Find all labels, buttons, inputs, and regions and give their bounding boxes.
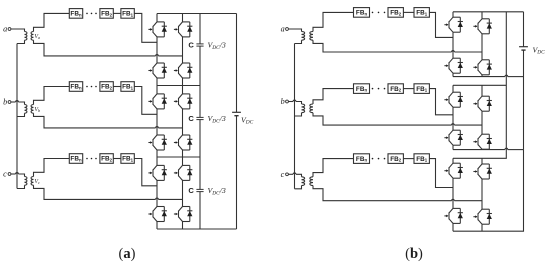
wire: primary-side neutral bus (circuit b) (294, 44, 296, 189)
svg-text:b: b (3, 98, 7, 107)
node a (phase a input terminal, circuit b) (281, 25, 289, 34)
full-bridge module FB2 (phase b, circuit b) (388, 84, 403, 94)
wire: secondary bottom to cell AC return (34, 40, 183, 56)
full-bridge module FB1 (phase b, circuit a) (121, 82, 134, 92)
IGBT Q2 with diode (174, 22, 193, 37)
wire: FB2 to FB1 (113, 158, 121, 160)
svg-text:C: C (188, 114, 194, 123)
transformer Ta (circuit a) (25, 32, 34, 41)
wire: secondary bottom to cell AC return (34, 185, 183, 199)
wire: bridge c bottom bus to negative rail (453, 150, 524, 232)
wire: mid DC bus (cells 1-2) (157, 85, 200, 87)
full-bridge module FB1 (phase a, circuit a) (121, 9, 134, 19)
wire: FB1 output to cell AC input (134, 13, 157, 42)
transformer Ta (circuit b) (302, 32, 314, 41)
wire: FB1 output to bridge AC input (429, 12, 453, 37)
full-bridge module FBn (phase c, circuit b) (354, 154, 370, 164)
full-bridge module FB1 (phase b, circuit b) (414, 84, 429, 94)
svg-text:a: a (3, 25, 7, 34)
node b (phase b input terminal, circuit b) (281, 97, 289, 106)
wire: leg verticals (453, 12, 482, 77)
svg-text:Vb: Vb (34, 107, 40, 113)
IGBT Q8 with diode (174, 135, 193, 150)
svg-text:(b): (b) (405, 246, 423, 262)
transformer Tb (circuit b) (302, 104, 314, 113)
full-bridge module FB1 (phase a, circuit b) (414, 8, 429, 18)
wire: top DC bus (cell 1) (157, 13, 237, 15)
IGBT Q10 with diode (174, 165, 193, 180)
node c (phase c input terminal, circuit b) (281, 170, 289, 179)
svg-text:FB2: FB2 (101, 84, 113, 91)
IGBT Q16 with diode (473, 60, 492, 75)
ellipsis dots (86, 158, 97, 160)
svg-text:c: c (3, 170, 7, 179)
svg-text:FBn: FBn (70, 11, 82, 18)
IGBT Q15 with diode (444, 58, 463, 73)
full-bridge module FBn (phase b, circuit b) (354, 84, 370, 94)
full-bridge module FB2 (phase b, circuit a) (100, 82, 113, 92)
IGBT Q7 with diode (148, 135, 167, 150)
wire: terminal to primary (288, 173, 301, 177)
svg-text:Vc: Vc (34, 179, 40, 185)
wire: bridge b bottom bus to negative rail (453, 148, 524, 149)
wire: secondary top to FB chain (313, 89, 354, 104)
ellipsis dots (372, 158, 386, 160)
wire: secondary bottom to bridge AC return (313, 186, 482, 201)
wire: primary return to neutral (295, 40, 302, 43)
IGBT Q3 with diode (148, 63, 167, 78)
wire: battery leads (523, 12, 525, 150)
transformer Tc (circuit b) (302, 177, 314, 186)
wire: FB2 to FB1 (403, 88, 414, 90)
IGBT Q19 with diode (444, 130, 463, 145)
capacitor C1 (196, 44, 203, 46)
svg-text:FB2: FB2 (101, 11, 113, 18)
wire: primary-side neutral bus (16, 44, 18, 189)
svg-text:FB2: FB2 (390, 86, 402, 93)
svg-text:FBn: FBn (356, 156, 368, 163)
IGBT Q14 with diode (473, 19, 492, 34)
wire: primary return to neutral (295, 186, 302, 189)
wire: secondary bottom to cell AC return (34, 113, 183, 128)
wire: leg verticals (157, 86, 183, 158)
IGBT Q22 with diode (473, 164, 492, 179)
IGBT Q1 with diode (148, 22, 167, 37)
wire: FB1 output to cell AC input (134, 159, 157, 186)
svg-text:Va: Va (34, 34, 40, 40)
ellipsis dots (372, 88, 386, 90)
full-bridge module FB2 (phase a, circuit b) (388, 8, 403, 18)
DC source VDC (circuit b) (519, 47, 528, 50)
wire: secondary top to FB chain (34, 13, 70, 31)
IGBT Q24 with diode (473, 209, 492, 224)
full-bridge module FB2 (phase c, circuit a) (100, 154, 113, 164)
svg-text:(a): (a) (119, 246, 136, 262)
IGBT Q13 with diode (444, 17, 463, 32)
wire: FB1 output to bridge AC input (429, 89, 453, 115)
IGBT Q4 with diode (174, 63, 193, 78)
wire: bottom DC bus (cell 3) (157, 228, 237, 230)
ellipsis dots (86, 13, 97, 15)
wire: secondary bottom to bridge AC return (313, 113, 482, 125)
full-bridge module FB2 (phase c, circuit b) (388, 154, 403, 164)
wire: primary return to neutral (17, 185, 25, 188)
wire: positive distribution rail (453, 12, 506, 159)
svg-text:FBn: FBn (356, 10, 368, 17)
ellipsis dots (372, 12, 386, 14)
svg-text:FB1: FB1 (122, 156, 134, 163)
wire: leg verticals (157, 157, 183, 229)
wire: mid DC bus (cells 2-3) (157, 156, 200, 158)
svg-text:FBn: FBn (70, 156, 82, 163)
capacitor C3 (196, 189, 203, 191)
wire: FB2 to FB1 (403, 158, 414, 160)
wire: FB2 to FB1 (113, 86, 121, 88)
IGBT Q21 with diode (444, 163, 463, 178)
transformer Tb (circuit a) (25, 105, 34, 114)
full-bridge module FB1 (phase c, circuit b) (414, 154, 429, 164)
IGBT Q18 with diode (473, 96, 492, 111)
wire: bridge b top bus (453, 84, 506, 86)
svg-text:FB1: FB1 (416, 86, 428, 93)
svg-text:FBn: FBn (356, 86, 368, 93)
wire: bridge a bottom bus to negative rail (453, 75, 524, 76)
full-bridge module FBn (phase a, circuit b) (354, 8, 370, 18)
transformer Tc (circuit a) (25, 177, 34, 186)
wire: primary return to neutral (17, 40, 25, 43)
svg-text:C: C (188, 186, 194, 195)
wire: leg verticals (453, 85, 482, 149)
wire: secondary top to FB chain (34, 87, 70, 105)
wire: FB2 to FB1 (403, 11, 414, 13)
wire: terminal to primary (288, 29, 301, 32)
IGBT Q5 with diode (148, 94, 167, 109)
IGBT Q20 with diode (473, 134, 492, 149)
node b (phase b input terminal, circuit a) (3, 98, 11, 107)
svg-text:FB2: FB2 (390, 156, 402, 163)
wire: secondary top to FB chain (313, 159, 354, 177)
full-bridge module FBn (phase a, circuit a) (69, 9, 82, 19)
IGBT Q12 with diode (174, 207, 193, 222)
node a (phase a input terminal, circuit a) (3, 25, 11, 34)
wire: secondary top to FB chain (34, 159, 70, 177)
DC source VDC (circuit a) (232, 112, 241, 115)
wire: terminal to primary (11, 173, 25, 177)
wire: terminal to primary (288, 100, 301, 104)
capacitor C2 (196, 117, 203, 119)
svg-text:a: a (281, 25, 285, 34)
full-bridge module FB2 (phase a, circuit a) (100, 9, 113, 19)
wire: secondary top to FB chain (313, 12, 354, 31)
IGBT Q9 with diode (148, 165, 167, 180)
svg-text:FB1: FB1 (122, 84, 134, 91)
wire: bridge a top bus to battery positive (453, 11, 524, 13)
wire: leg verticals (453, 158, 482, 231)
wire: capacitor chain segment (199, 157, 201, 229)
full-bridge module FBn (phase c, circuit a) (69, 154, 82, 164)
wire: terminal to primary (11, 29, 25, 32)
wire: FB1 output to bridge AC input (429, 159, 453, 188)
IGBT Q6 with diode (174, 94, 193, 109)
svg-text:FBn: FBn (70, 84, 82, 91)
IGBT Q23 with diode (444, 208, 463, 223)
svg-text:FB1: FB1 (416, 156, 428, 163)
ellipsis dots (86, 86, 97, 88)
IGBT Q17 with diode (444, 92, 463, 107)
wire: primary return to neutral (17, 113, 25, 116)
IGBT Q11 with diode (148, 207, 167, 222)
wire: secondary bottom to bridge AC return (313, 40, 482, 52)
svg-text:FB1: FB1 (416, 10, 428, 17)
wire: DC source leads (236, 14, 238, 230)
svg-text:c: c (281, 170, 285, 179)
wire: terminal to primary (11, 101, 25, 105)
svg-text:FB1: FB1 (122, 11, 134, 18)
full-bridge module FB1 (phase c, circuit a) (121, 154, 134, 164)
wire: capacitor chain segment (199, 14, 201, 86)
wire: leg verticals (157, 14, 183, 86)
svg-text:b: b (281, 97, 285, 106)
svg-text:FB2: FB2 (390, 10, 402, 17)
full-bridge module FBn (phase b, circuit a) (69, 82, 82, 92)
wire: primary return to neutral (295, 113, 302, 116)
svg-text:C: C (188, 41, 194, 50)
wire: capacitor chain segment (199, 86, 201, 158)
wire: FB2 to FB1 (113, 12, 121, 14)
wire: FB1 output to cell AC input (134, 87, 157, 115)
node c (phase c input terminal, circuit a) (3, 170, 11, 179)
svg-text:FB2: FB2 (101, 156, 113, 163)
